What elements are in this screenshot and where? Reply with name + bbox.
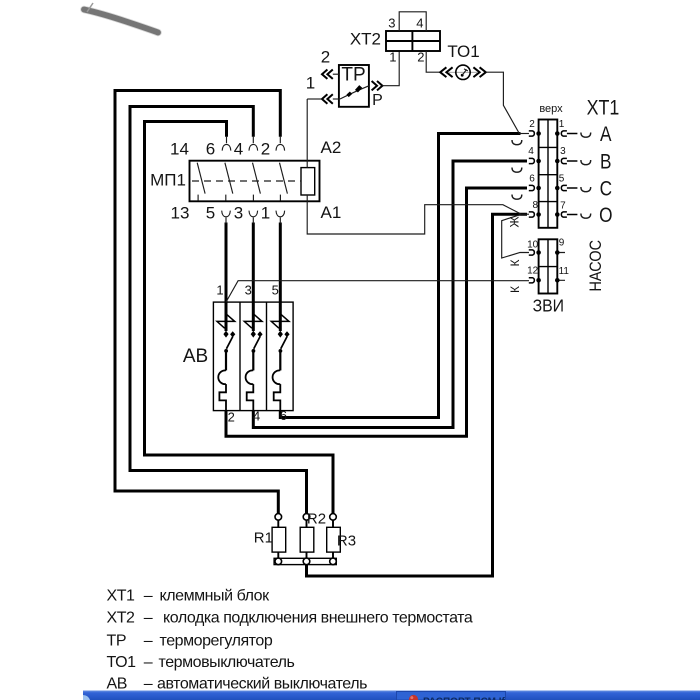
svg-text:8: 8: [533, 200, 539, 211]
svg-text:АВ: АВ: [107, 675, 127, 692]
svg-text:С: С: [600, 178, 613, 201]
svg-text:2: 2: [261, 139, 270, 158]
svg-text:11: 11: [559, 266, 570, 277]
svg-text:5: 5: [559, 173, 565, 184]
svg-text:НАСОС: НАСОС: [587, 240, 605, 292]
svg-text:К: К: [508, 260, 522, 267]
svg-text:13: 13: [171, 204, 190, 223]
svg-text:1: 1: [216, 283, 223, 298]
svg-text:R3: R3: [337, 533, 356, 550]
svg-text:14: 14: [170, 139, 189, 158]
svg-text:клеммный блок: клеммный блок: [160, 588, 271, 605]
svg-text:9: 9: [559, 238, 565, 249]
svg-text:7: 7: [560, 200, 566, 211]
svg-text:А2: А2: [321, 138, 342, 157]
svg-text:ХТ1: ХТ1: [107, 588, 136, 605]
svg-text:12: 12: [527, 266, 539, 277]
svg-text:6: 6: [206, 139, 215, 158]
svg-text:–: –: [144, 588, 153, 605]
svg-text:6: 6: [529, 173, 535, 184]
svg-text:ХТ2: ХТ2: [107, 609, 136, 626]
svg-text:ТО1: ТО1: [447, 42, 479, 61]
svg-text:ТР: ТР: [341, 65, 365, 86]
svg-text:ЗВИ: ЗВИ: [533, 296, 564, 316]
svg-text:4: 4: [234, 139, 243, 158]
svg-text:К: К: [508, 286, 522, 293]
svg-text:2: 2: [228, 409, 235, 424]
svg-text:6: 6: [280, 408, 287, 423]
svg-text:3: 3: [234, 204, 243, 223]
svg-text:ХТ2: ХТ2: [350, 29, 381, 48]
svg-text:–: –: [144, 675, 153, 692]
svg-text:10: 10: [527, 239, 539, 250]
svg-text:А1: А1: [321, 203, 342, 222]
svg-text:3: 3: [388, 16, 395, 31]
svg-text:2: 2: [321, 48, 330, 67]
svg-text:Р: Р: [372, 92, 383, 109]
svg-text:МП1: МП1: [150, 171, 186, 190]
svg-text:–: –: [144, 609, 153, 626]
svg-text:РАСПОРТ ПСМ If: РАСПОРТ ПСМ If: [423, 697, 506, 700]
svg-text:колодка подключения внешнего т: колодка подключения внешнего термостата: [163, 609, 473, 626]
svg-text:4: 4: [416, 16, 423, 31]
svg-text:А: А: [600, 124, 612, 147]
svg-text:2: 2: [417, 50, 424, 65]
svg-text:В: В: [600, 151, 611, 174]
svg-text:1: 1: [559, 119, 565, 130]
svg-text:5: 5: [272, 283, 279, 298]
svg-text:–: –: [144, 633, 153, 650]
svg-text:ТР: ТР: [107, 633, 127, 650]
svg-text:АВ: АВ: [183, 346, 208, 367]
svg-text:1: 1: [389, 50, 396, 65]
svg-text:R1: R1: [254, 530, 273, 547]
svg-text:автоматический выключатель: автоматический выключатель: [157, 675, 367, 692]
svg-text:4: 4: [528, 146, 534, 157]
svg-text:5: 5: [206, 204, 215, 223]
svg-text:3: 3: [245, 283, 252, 298]
svg-text:О: О: [599, 205, 612, 228]
svg-text:4: 4: [253, 409, 260, 424]
svg-text:1: 1: [261, 204, 270, 223]
svg-text:ТО1: ТО1: [107, 654, 137, 671]
svg-text:1: 1: [306, 74, 315, 93]
svg-text:–: –: [144, 654, 153, 671]
svg-text:2: 2: [529, 119, 535, 130]
svg-text:верх: верх: [539, 103, 563, 115]
svg-text:термовыключатель: термовыключатель: [159, 654, 295, 671]
svg-text:терморегулятор: терморегулятор: [160, 633, 273, 650]
svg-text:3: 3: [560, 146, 566, 157]
svg-text:ХТ1: ХТ1: [587, 96, 620, 120]
svg-text:R2: R2: [307, 511, 326, 528]
